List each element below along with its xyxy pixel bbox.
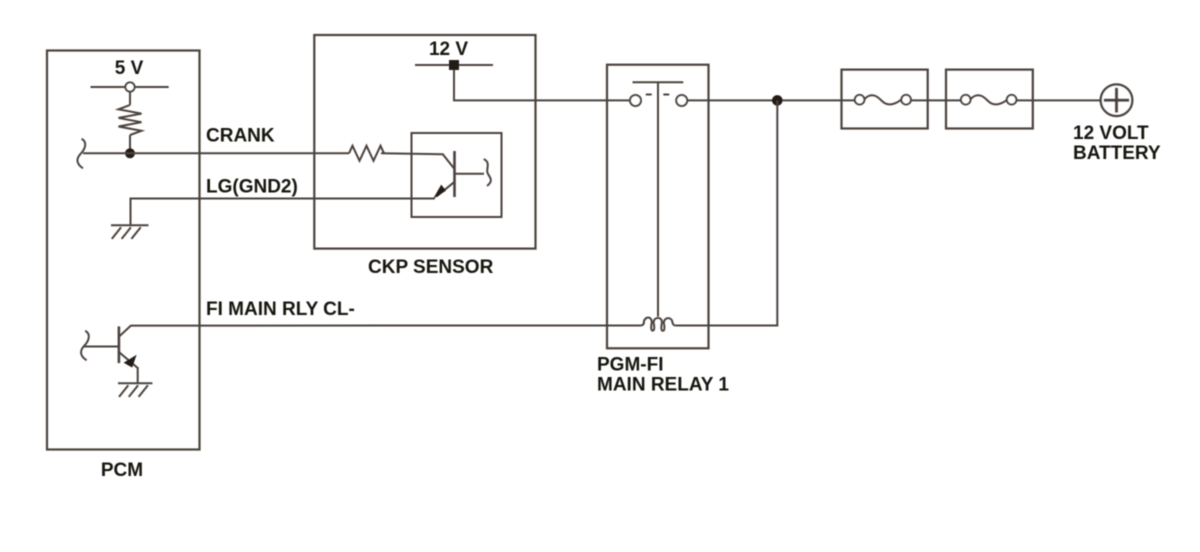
svg-text:CKP SENSOR: CKP SENSOR [368,257,494,278]
LG(GND2) wire [131,199,435,226]
transistor Q2 emitter with arrow [120,353,138,369]
hall element inner box [412,133,502,217]
svg-text:12 VOLT: 12 VOLT [1073,123,1149,144]
svg-text:FI MAIN RLY CL-: FI MAIN RLY CL- [206,299,355,320]
wire-break squiggle base [484,159,491,186]
ground G101 [111,225,149,239]
relay coil L1 [641,318,675,331]
ground G102 [118,383,152,397]
CRANK wire [83,152,349,154]
FI MAIN RLY CL- wire [130,325,640,327]
svg-text:BATTERY: BATTERY [1073,143,1161,164]
wire 12V to relay contact [454,70,630,100]
PCM box [47,51,200,450]
svg-text:PCM: PCM [101,460,143,481]
wire resistor to transistor collector [381,153,454,169]
12 V rail wire [415,64,493,66]
transistor Q2 collector [120,326,131,337]
transistor Q1 emitter with arrow [437,182,455,197]
wire emitter to ground [137,367,139,383]
fuse box 2 [946,70,1033,129]
resistor in CKP sensor [349,146,384,161]
transistor Q1 base wire [456,173,485,175]
svg-text:12 V: 12 V [429,39,468,60]
relay armature bar [633,81,684,83]
wire circle to resistor [129,92,131,105]
5 V terminal circle [125,82,134,91]
node junction dot B [772,95,783,106]
wire-break squiggle base Q2 [81,331,89,361]
node junction dot [125,148,135,158]
transistor Q2 bar [118,326,121,363]
CKP SENSOR box [314,35,535,249]
fuse box 1 [842,70,928,129]
wire between fuse boxes [911,99,961,101]
transistor Q1 bar [453,151,456,197]
relay plunger wire [657,82,659,316]
fuse F2 [971,95,1008,104]
svg-text:PGM-FI: PGM-FI [597,355,664,376]
relay contact dashes [646,94,652,96]
PGM-FI MAIN RELAY 1 box [607,65,709,349]
wire resistor to node [129,135,131,150]
wire-break squiggle CRANK [77,139,85,169]
svg-text:LG(GND2): LG(GND2) [206,177,298,198]
relay contact circle left [630,95,641,106]
fuse F1 [864,95,901,104]
wire node down to coil [675,100,777,325]
12 V terminal square [449,60,459,70]
svg-text:CRANK: CRANK [206,126,275,147]
transistor Q2 base wire [84,346,118,348]
svg-text:5 V: 5 V [115,58,144,79]
battery positive terminal [1101,84,1133,116]
svg-text:MAIN RELAY 1: MAIN RELAY 1 [597,375,729,396]
5 V rail wire [91,86,169,88]
relay contact circle right [676,95,687,106]
wire fuse to battery [1016,99,1100,101]
wire contact to node and fuse [687,99,855,101]
resistor R pull-up [119,105,142,135]
